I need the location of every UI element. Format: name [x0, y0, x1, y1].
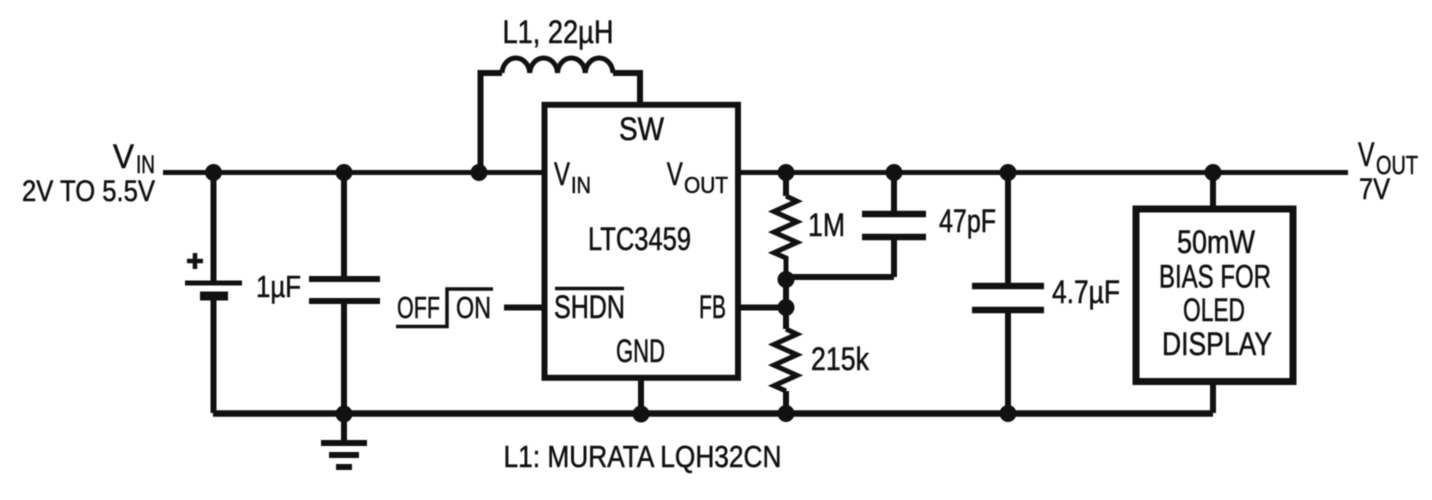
- junction R1 to VOUT rail: [778, 164, 795, 181]
- wire VIN rail: [163, 170, 546, 175]
- svg-text:ON: ON: [456, 290, 491, 325]
- wire load box to ground rail: [1210, 381, 1216, 413]
- svg-text:215k: 215k: [811, 341, 870, 377]
- wire VOUT rail to load box: [1210, 173, 1216, 210]
- svg-text:FB: FB: [699, 289, 726, 325]
- svg-text:1µF: 1µF: [256, 269, 301, 304]
- junction C2 to VOUT rail: [886, 164, 903, 181]
- wire FB node vertical: [783, 277, 789, 329]
- pin label SHDN with overline: [554, 289, 625, 326]
- ground: [321, 413, 367, 467]
- resistor R1 1M: [774, 173, 797, 278]
- svg-text:DISPLAY: DISPLAY: [1162, 326, 1272, 362]
- wire bottom ground rail: [213, 410, 1213, 417]
- svg-text:IN: IN: [571, 172, 591, 198]
- svg-text:L1, 22µH: L1, 22µH: [503, 14, 614, 50]
- junction C3 to VOUT rail: [1000, 164, 1017, 181]
- node VOUT label: [1358, 136, 1418, 206]
- load box 50mW BIAS FOR OLED DISPLAY: [1136, 209, 1293, 382]
- inductor L1 22uH: [481, 58, 641, 173]
- svg-text:50mW: 50mW: [1177, 224, 1256, 260]
- junction L1 to VIN rail: [471, 164, 488, 181]
- junction R1/C2 node: [778, 271, 795, 288]
- OFF/ON shutdown drive symbol: [396, 289, 493, 327]
- capacitor C3 4.7uF: [972, 173, 1044, 414]
- svg-text:BIAS FOR: BIAS FOR: [1159, 259, 1271, 295]
- battery B1 + lead wires: [185, 173, 242, 414]
- junction C1 to VIN rail: [336, 164, 353, 181]
- svg-text:1M: 1M: [808, 207, 845, 243]
- svg-text:4.7µF: 4.7µF: [1052, 274, 1120, 310]
- svg-text:47pF: 47pF: [939, 203, 996, 239]
- node VIN label: [22, 138, 155, 208]
- svg-text:OFF: OFF: [397, 290, 440, 325]
- junction FB node: [778, 299, 795, 316]
- capacitor C2 47pF: [862, 173, 926, 278]
- svg-text:L1: MURATA LQH32CN: L1: MURATA LQH32CN: [504, 439, 782, 474]
- junction battery to VIN rail: [205, 164, 222, 181]
- svg-text:V: V: [1358, 136, 1375, 174]
- svg-text:SHDN: SHDN: [554, 289, 625, 325]
- junction load box to VOUT rail: [1205, 164, 1222, 181]
- junction R2 to rail: [778, 405, 795, 422]
- svg-text:7V: 7V: [1359, 173, 1390, 206]
- wire FB pin to divider: [738, 305, 786, 311]
- svg-text:V: V: [554, 156, 570, 192]
- wire GND pin to rail: [638, 375, 644, 413]
- svg-text:OUT: OUT: [684, 172, 728, 198]
- wire 47pF bottom to FB node: [786, 274, 894, 280]
- junction ground symbol to rail: [336, 406, 353, 423]
- svg-text:2V TO 5.5V: 2V TO 5.5V: [22, 175, 155, 208]
- pin label VIN: [554, 156, 591, 198]
- resistor R2 215k: [774, 329, 797, 413]
- svg-text:GND: GND: [616, 333, 665, 369]
- wire OFF/ON to SHDN pin: [504, 305, 546, 311]
- pin label VOUT: [667, 156, 728, 198]
- svg-text:SW: SW: [619, 111, 665, 147]
- svg-text:V: V: [667, 156, 683, 192]
- svg-text:OLED: OLED: [1183, 292, 1245, 328]
- junction GND pin to rail: [633, 406, 650, 423]
- svg-text:LTC3459: LTC3459: [588, 221, 691, 257]
- wire VOUT rail: [736, 170, 1348, 175]
- IC U1 LTC3459 body: [545, 105, 739, 378]
- svg-text:V: V: [113, 138, 134, 176]
- capacitor C1 1uF: [309, 173, 380, 414]
- junction C3 to rail: [1000, 405, 1017, 422]
